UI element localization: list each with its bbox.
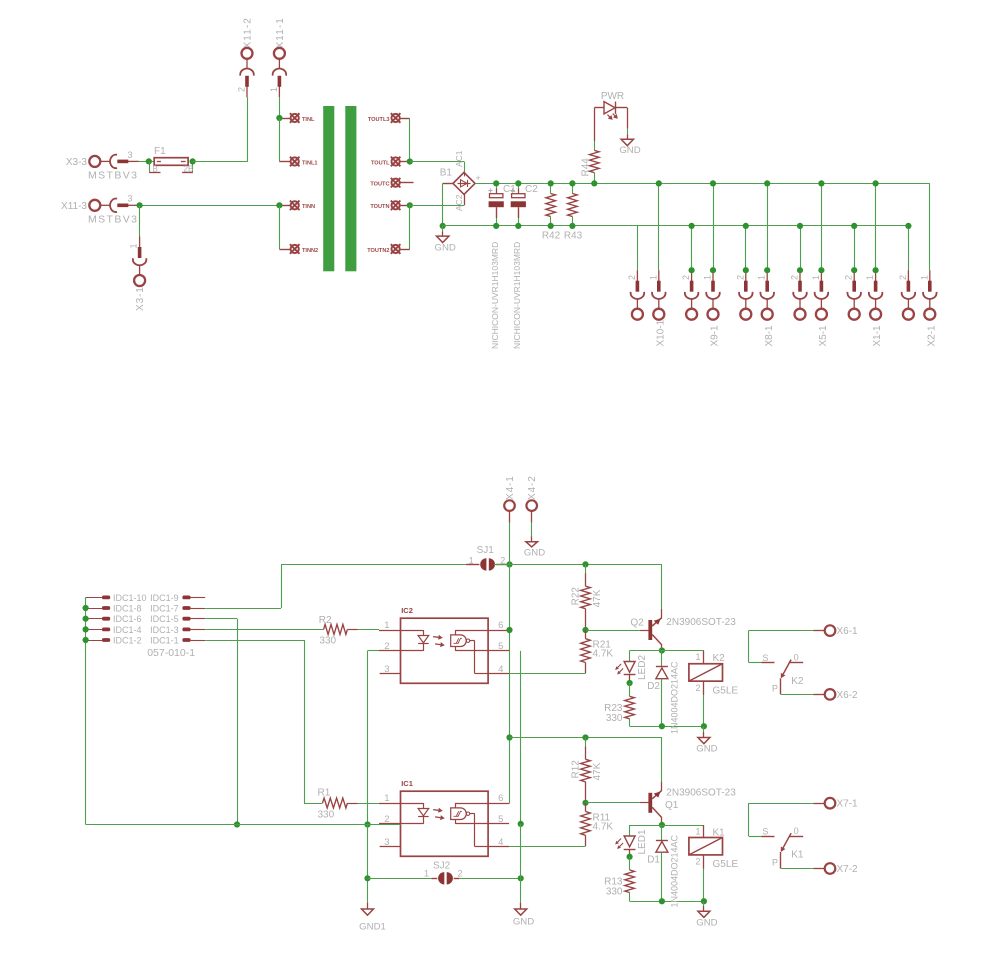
junction — [873, 180, 879, 186]
svg-text:NICHICON-UVR1H103MRD: NICHICON-UVR1H103MRD — [490, 242, 500, 349]
IC2 pin5 wire down to IC1 pin5 — [520, 651, 522, 824]
diode D1 1N4004 — [661, 825, 663, 840]
svg-text:1: 1 — [384, 620, 389, 631]
connector X6-2 — [825, 689, 836, 700]
junction — [764, 180, 770, 186]
svg-text:B1: B1 — [440, 168, 453, 179]
junction IC2 pin6 — [506, 627, 512, 633]
junction — [659, 898, 665, 904]
junction — [689, 223, 695, 229]
ground rail lower — [86, 824, 401, 826]
svg-text:1: 1 — [695, 652, 700, 662]
wire R11 to IC pin4 — [509, 846, 586, 848]
svg-text:6: 6 — [498, 620, 503, 631]
svg-text:47K: 47K — [592, 589, 603, 607]
svg-text:AC2: AC2 — [454, 194, 464, 211]
junction — [364, 821, 370, 827]
junction — [518, 821, 524, 827]
wire R1 to IC1 pin1 — [348, 803, 358, 805]
svg-text:IC1: IC1 — [401, 779, 413, 788]
svg-text:GND: GND — [513, 917, 534, 928]
IC2 pin 2 — [379, 650, 401, 652]
LED PWR — [604, 102, 615, 114]
junction — [851, 267, 857, 273]
svg-text:3: 3 — [127, 194, 132, 204]
wire X7-1 to switch S — [749, 803, 814, 805]
capacitor C2 — [518, 183, 520, 188]
svg-text:K2: K2 — [713, 653, 726, 664]
svg-text:2: 2 — [627, 275, 637, 280]
svg-text:2: 2 — [458, 869, 463, 879]
resistor R23 330 — [629, 683, 631, 696]
svg-text:6: 6 — [498, 793, 503, 804]
wire TOUTL3 to TOUTL — [409, 118, 411, 162]
svg-text:D2: D2 — [647, 681, 660, 692]
LED LED2 — [629, 651, 631, 662]
svg-text:TOUTC: TOUTC — [370, 182, 389, 188]
svg-text:R12: R12 — [571, 760, 582, 779]
transformer pin TINL1 — [290, 157, 300, 167]
connector X7-2 — [825, 863, 836, 874]
svg-text:TOUTN2: TOUTN2 — [367, 248, 389, 254]
svg-text:2N3906SOT-23: 2N3906SOT-23 — [666, 617, 736, 628]
wire X6-1 to switch S — [749, 630, 814, 632]
svg-text:IDC1-4: IDC1-4 — [113, 625, 142, 635]
relay switch K1 — [762, 836, 775, 838]
junction — [701, 723, 707, 729]
svg-text:TOUTN: TOUTN — [370, 204, 389, 210]
svg-text:NICHICON-UVR1H103MRD: NICHICON-UVR1H103MRD — [512, 242, 522, 349]
resistor R1 — [323, 798, 348, 808]
ground GND sj2 — [520, 903, 522, 909]
junction — [515, 180, 521, 186]
svg-text:1: 1 — [129, 243, 139, 248]
op-amp IC2 optocoupler — [401, 618, 489, 683]
IC1 pin 1 — [379, 803, 401, 805]
transformer pin TOUTC — [391, 178, 401, 188]
diode D2 1N4004 — [661, 651, 663, 667]
connector X5 pin 2 — [800, 226, 802, 270]
wire TOUTL to bridge AC1 — [410, 161, 464, 163]
ground GND pwr — [621, 139, 633, 145]
svg-text:MSTBV3: MSTBV3 — [88, 170, 138, 182]
junction — [83, 637, 89, 643]
svg-text:K2: K2 — [791, 676, 804, 687]
junction — [591, 180, 597, 186]
junction — [582, 561, 588, 567]
junction — [364, 875, 370, 881]
junction — [506, 561, 512, 567]
IC1 pin 2 — [379, 823, 401, 825]
svg-text:X4-1: X4-1 — [505, 475, 516, 500]
connector X4-1 — [504, 500, 515, 511]
transformer pin TOUTL — [391, 157, 401, 167]
svg-text:IDC1-1: IDC1-1 — [150, 635, 179, 645]
junction — [493, 180, 499, 186]
pin IDC1-5 — [182, 617, 190, 621]
junction — [743, 267, 749, 273]
connector X2 pin 2 — [908, 226, 910, 270]
connector X11-3 — [89, 199, 139, 213]
junction — [146, 158, 152, 164]
junction — [764, 267, 770, 273]
IC2 pin 1 — [379, 630, 401, 632]
svg-text:330: 330 — [318, 809, 335, 820]
wire LED to GND — [627, 108, 629, 129]
junction — [83, 626, 89, 632]
junction — [234, 821, 240, 827]
capacitor C1 — [496, 183, 498, 188]
svg-text:1: 1 — [648, 275, 658, 280]
svg-text:C2: C2 — [525, 184, 538, 195]
channel bottom rail — [630, 726, 704, 728]
svg-text:P: P — [772, 858, 778, 868]
svg-text:2: 2 — [790, 275, 800, 280]
ground GND X4-2 — [531, 536, 533, 542]
wire IDC1-7 to SJ1 — [205, 608, 281, 610]
svg-text:IDC1-9: IDC1-9 — [150, 593, 179, 603]
svg-text:2: 2 — [898, 275, 908, 280]
IC1 internal LED — [401, 803, 424, 805]
connector X10 pin 2 — [637, 226, 639, 270]
svg-text:TOUTL3: TOUTL3 — [368, 117, 390, 123]
svg-text:1: 1 — [865, 275, 875, 280]
svg-text:1: 1 — [695, 827, 700, 837]
V+ rail channel 1 — [510, 737, 662, 739]
junction — [797, 267, 803, 273]
wire IDC1-5 down — [205, 618, 237, 620]
junction — [518, 875, 524, 881]
svg-text:S: S — [762, 653, 768, 663]
svg-text:3: 3 — [384, 664, 389, 675]
junction — [710, 267, 716, 273]
junction — [548, 223, 554, 229]
svg-text:2: 2 — [500, 555, 505, 565]
svg-text:47K: 47K — [592, 762, 603, 780]
svg-text:X3-1: X3-1 — [135, 286, 146, 311]
svg-text:TOUTL: TOUTL — [371, 160, 390, 166]
IC2 internal LED — [401, 630, 424, 632]
connector X10 pin 1 — [658, 183, 660, 270]
connector X3-1 — [133, 237, 147, 287]
ground GND1 — [367, 903, 369, 909]
svg-text:330: 330 — [606, 887, 623, 898]
svg-text:K1: K1 — [713, 828, 726, 839]
transformer pin TINN — [290, 201, 300, 211]
svg-text:TINN2: TINN2 — [302, 248, 318, 254]
ground GND K1 — [703, 901, 705, 906]
ground GND K2 — [703, 726, 705, 732]
solder jumper SJ2 — [368, 878, 432, 880]
svg-text:X7-1: X7-1 — [837, 799, 859, 810]
junction — [656, 180, 662, 186]
svg-text:1N4004DO214AC: 1N4004DO214AC — [670, 661, 680, 734]
relay switch K2 — [762, 662, 775, 664]
junction V+ branch — [506, 734, 512, 740]
connector X9 pin 2 — [691, 226, 693, 270]
IC2 detector — [451, 635, 467, 647]
svg-text:GND: GND — [619, 145, 640, 156]
svg-text:TINL: TINL — [302, 117, 315, 123]
IC2 pin 6 — [488, 630, 509, 632]
svg-text:5: 5 — [498, 641, 503, 652]
junction — [627, 680, 633, 686]
IDC1 ground bus wire — [85, 597, 87, 824]
pin IDC1-3 — [182, 628, 190, 632]
svg-text:3: 3 — [127, 150, 132, 160]
wire TOUTN to bridge AC2 — [410, 205, 464, 207]
pin IDC1-6 — [86, 618, 102, 620]
IC2 pin 5 — [488, 650, 509, 652]
base wire to Q2 — [586, 630, 649, 632]
connector X1 pin 1 — [875, 183, 877, 270]
svg-text:R44: R44 — [581, 158, 592, 177]
svg-text:X8-1: X8-1 — [764, 325, 775, 347]
wire bridge minus to GND rail — [443, 183, 453, 185]
junction — [627, 854, 633, 860]
svg-text:X10-1: X10-1 — [655, 319, 666, 346]
wire switch P to X6-2 — [781, 694, 814, 696]
svg-text:LED2: LED2 — [637, 655, 648, 680]
IC2 pin2 wire down — [368, 650, 380, 652]
svg-text:2: 2 — [844, 275, 854, 280]
resistor R2 — [324, 624, 348, 634]
junction — [407, 202, 413, 208]
svg-text:R1: R1 — [318, 787, 331, 798]
svg-text:K1: K1 — [791, 850, 804, 861]
IC1 detector — [451, 808, 467, 820]
wire R44 to LED PWR — [594, 141, 596, 150]
IC2 internal wiring — [455, 630, 457, 635]
svg-text:0: 0 — [794, 652, 799, 662]
connector X9 pin 1 — [713, 183, 715, 270]
V+ rail channel 2 — [494, 564, 662, 566]
junction — [569, 180, 575, 186]
svg-text:X5-1: X5-1 — [818, 325, 829, 347]
svg-text:1: 1 — [384, 793, 389, 804]
svg-text:IDC1-10: IDC1-10 — [113, 593, 147, 603]
svg-text:GND: GND — [435, 243, 456, 254]
svg-text:TINL1: TINL1 — [302, 160, 318, 166]
wire X11-3 node — [139, 205, 280, 207]
svg-text:2: 2 — [237, 87, 247, 92]
V+ rail — [594, 183, 930, 185]
junction collector node — [659, 647, 665, 653]
svg-text:1: 1 — [811, 275, 821, 280]
connector X8 pin 2 — [745, 226, 747, 270]
pin IDC1-4 — [86, 629, 102, 631]
IC1 light arrows — [433, 809, 438, 812]
resistor R43 — [572, 183, 574, 193]
IC1 pin 4 — [488, 846, 509, 848]
transformer pin TINL — [290, 113, 300, 123]
svg-text:IDC1-8: IDC1-8 — [113, 603, 142, 613]
wire TOUTN to TOUTN2 — [409, 205, 411, 249]
IC2 light arrows — [433, 636, 438, 639]
wire to GND right — [520, 824, 522, 903]
svg-text:2: 2 — [695, 857, 700, 867]
junction — [582, 734, 588, 740]
junction — [569, 223, 575, 229]
svg-text:3: 3 — [384, 837, 389, 848]
junction — [83, 616, 89, 622]
wire R2 to IC2 pin1 — [347, 629, 357, 631]
GND rail — [443, 225, 909, 227]
svg-text:GND1: GND1 — [359, 922, 386, 933]
svg-text:1: 1 — [424, 869, 429, 879]
junction — [797, 223, 803, 229]
bridge rectifier B1 — [453, 172, 475, 194]
wire X3-3 to F1 — [139, 161, 154, 163]
svg-text:GND: GND — [696, 744, 717, 755]
pin IDC1-2 — [86, 640, 102, 642]
svg-text:IDC1-7: IDC1-7 — [150, 603, 179, 613]
svg-text:R43: R43 — [564, 231, 583, 242]
junction — [851, 223, 857, 229]
pin IDC1-1 — [182, 638, 190, 642]
junction — [710, 180, 716, 186]
svg-text:D1: D1 — [647, 855, 660, 866]
svg-text:X11-2: X11-2 — [243, 17, 254, 48]
collector node rail — [630, 825, 704, 827]
svg-text:IDC1-2: IDC1-2 — [113, 635, 142, 645]
svg-text:330: 330 — [606, 713, 623, 724]
solder jumper SJ1 — [466, 564, 479, 566]
svg-text:X2-1: X2-1 — [926, 325, 937, 347]
svg-text:X11-3: X11-3 — [61, 201, 87, 212]
svg-text:X6-1: X6-1 — [837, 626, 859, 637]
svg-text:X6-2: X6-2 — [837, 690, 859, 701]
wire IDC1-1 to R1 — [205, 640, 304, 642]
pin IDC1-9 — [182, 596, 190, 600]
resistor R42 — [550, 183, 552, 193]
channel bottom rail — [630, 901, 704, 903]
wire IDC1-3 to R2 — [205, 629, 323, 631]
svg-text:5: 5 — [498, 814, 503, 825]
IC1 pin 5 — [488, 823, 509, 825]
svg-text:S: S — [762, 827, 768, 837]
Q1 collector wire — [661, 818, 663, 825]
wire F1 to X11-2 — [193, 161, 247, 163]
IC1 internal wiring — [455, 803, 457, 808]
svg-text:G5LE: G5LE — [713, 685, 739, 696]
junction — [190, 158, 196, 164]
junction — [515, 223, 521, 229]
junction — [440, 223, 446, 229]
svg-text:R2: R2 — [319, 615, 332, 626]
fuse F1 — [154, 158, 188, 166]
svg-text:X3-3: X3-3 — [66, 157, 88, 168]
svg-text:MSTBV3: MSTBV3 — [88, 213, 138, 225]
junction — [905, 223, 911, 229]
connector X2 pin 1 — [929, 183, 931, 270]
pin IDC1-10 — [86, 597, 102, 599]
junction — [276, 115, 282, 121]
collector node rail — [630, 650, 704, 652]
transformer pin TOUTN2 — [391, 244, 401, 254]
wire bridge plus to V+ rail — [475, 183, 595, 185]
junction — [137, 202, 143, 208]
svg-text:X7-2: X7-2 — [837, 864, 859, 875]
LED LED1 — [629, 825, 631, 836]
connector X6-1 — [825, 625, 836, 636]
svg-text:1: 1 — [757, 275, 767, 280]
Q2 emitter wire — [661, 564, 663, 617]
wire bridge AC2 pin — [464, 194, 466, 205]
transistor Q1 2N3906 — [648, 793, 652, 813]
connector X1 pin 2 — [854, 226, 856, 270]
junction — [407, 158, 413, 164]
svg-text:X9-1: X9-1 — [710, 325, 721, 347]
wire TINN to TINN2 — [279, 205, 281, 249]
svg-text:IDC1-5: IDC1-5 — [150, 614, 179, 624]
transformer pin TOUTN — [391, 201, 401, 211]
svg-text:IDC1-3: IDC1-3 — [150, 625, 179, 635]
ground GND bridge — [442, 226, 444, 231]
junction — [701, 898, 707, 904]
V+ vertical bus — [509, 564, 511, 803]
svg-text:B: B — [153, 164, 158, 173]
svg-text:2N3906SOT-23: 2N3906SOT-23 — [666, 787, 736, 798]
svg-text:4: 4 — [498, 664, 503, 675]
connector X4-2 — [526, 500, 537, 511]
junction — [743, 223, 749, 229]
wire IC pin2 net to SJ2 and GND1 — [367, 825, 369, 904]
connector X7-1 — [825, 798, 836, 809]
svg-text:0: 0 — [794, 826, 799, 836]
svg-text:SJ1: SJ1 — [477, 545, 495, 556]
base wire to Q1 — [586, 802, 649, 804]
resistor R11 4.7K — [585, 803, 587, 812]
junction — [689, 267, 695, 273]
svg-text:1: 1 — [469, 555, 474, 565]
connector X11-2 — [240, 48, 254, 98]
svg-text:GND: GND — [524, 548, 545, 559]
resistor R44 — [594, 173, 596, 184]
Q2 collector wire — [661, 645, 663, 651]
svg-text:F1: F1 — [154, 146, 166, 157]
svg-text:AC1: AC1 — [454, 150, 464, 167]
resistor R13 330 — [629, 857, 631, 870]
svg-text:G5LE: G5LE — [713, 859, 739, 870]
svg-text:2: 2 — [681, 275, 691, 280]
transistor Q2 2N3906 — [648, 620, 652, 640]
svg-text:+: + — [476, 173, 481, 183]
connector X11-1 — [273, 48, 287, 98]
svg-text:X1-1: X1-1 — [872, 325, 883, 347]
junction collector node — [659, 822, 665, 828]
svg-text:PWR: PWR — [601, 91, 624, 102]
junction — [873, 267, 879, 273]
junction — [548, 180, 554, 186]
IC1 pin 6 — [488, 803, 509, 805]
svg-text:R22: R22 — [571, 587, 582, 606]
svg-text:IDC1-6: IDC1-6 — [113, 614, 142, 624]
connector X8 pin 1 — [767, 183, 769, 270]
pin IDC1-7 — [182, 606, 190, 610]
svg-text:2: 2 — [735, 275, 745, 280]
relay K1 G5LE coil — [703, 825, 705, 838]
transformer pin TOUTL3 — [391, 113, 401, 123]
junction — [659, 723, 665, 729]
junction — [818, 267, 824, 273]
svg-text:GND: GND — [696, 917, 717, 928]
svg-text:LED1: LED1 — [637, 829, 648, 854]
svg-text:2B: 2B — [184, 164, 194, 173]
resistor R22 47K — [585, 564, 587, 573]
svg-text:Q2: Q2 — [630, 617, 644, 628]
relay K2 G5LE coil — [703, 651, 705, 664]
